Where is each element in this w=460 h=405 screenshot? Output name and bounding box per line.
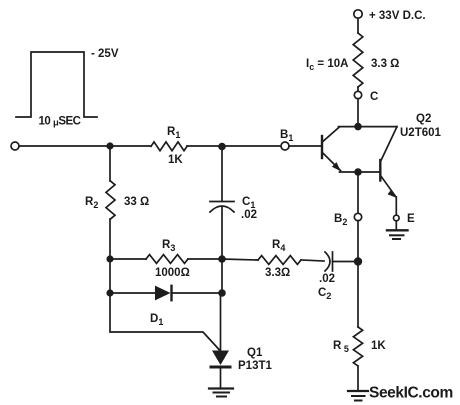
resistor R1	[151, 142, 187, 151]
capacitor C2	[325, 252, 333, 271]
diode D1	[155, 286, 172, 301]
resistor R5	[353, 327, 362, 366]
svg-text:Q2: Q2	[416, 113, 431, 125]
wire C1 column down to Q1 anode	[221, 259, 223, 293]
junction Q2 emitter/base node	[354, 168, 362, 176]
wire E to ground	[395, 221, 397, 230]
wire R1 to C1 junction	[187, 145, 222, 147]
wire terminal to collector resistor	[357, 18, 359, 33]
svg-text:C1: C1	[242, 196, 255, 210]
svg-text:.02: .02	[241, 209, 257, 221]
wire junction to terminal B1	[222, 145, 281, 147]
svg-text:- 25V: - 25V	[91, 48, 119, 60]
wire to D1	[110, 292, 156, 294]
svg-text:B2: B2	[334, 213, 347, 227]
junction R3 left	[106, 255, 113, 262]
junction at R2 top	[106, 142, 113, 149]
ground (E)	[387, 230, 408, 239]
svg-text:B1: B1	[280, 129, 293, 143]
wire left column row2 to row3	[109, 259, 111, 293]
terminal C	[354, 91, 361, 98]
svg-text:R1: R1	[167, 126, 180, 140]
svg-text:D1: D1	[150, 313, 163, 327]
input terminal	[11, 142, 19, 150]
svg-text:SeekIC.com: SeekIC.com	[369, 385, 453, 402]
junction D1 right	[218, 289, 226, 297]
wire R2 to node row	[109, 219, 111, 259]
svg-text:1000Ω: 1000Ω	[155, 267, 190, 279]
resistor R4	[258, 256, 301, 265]
wire R3 to junction	[188, 258, 222, 260]
svg-text:R 5: R 5	[333, 340, 349, 354]
wire junction to R4	[222, 259, 258, 260]
junction at C1 top	[218, 143, 226, 151]
svg-text:10 μSEC: 10 μSEC	[39, 116, 81, 129]
wire junction down to C1	[221, 146, 223, 201]
wire Q1 to ground	[220, 368, 222, 388]
wire junction to R1	[110, 145, 151, 147]
svg-text:3.3Ω: 3.3Ω	[265, 267, 290, 279]
pulse source waveform (10 usec, -25V)	[16, 52, 97, 117]
terminal B2	[354, 213, 361, 220]
resistor R3	[146, 255, 188, 264]
terminal B1	[281, 142, 289, 150]
svg-text:R3: R3	[162, 239, 175, 253]
svg-text:Ic = 10A: Ic = 10A	[306, 58, 348, 72]
terminal E	[394, 215, 400, 221]
SCR Q1	[211, 351, 230, 368]
svg-text:E: E	[407, 213, 415, 225]
transistor Q2 (darlington pair U2T601)	[322, 127, 397, 198]
wire junction down to R2	[109, 146, 111, 181]
wire Q2 emitter2 to terminal E	[395, 197, 397, 215]
ground (Q1)	[209, 389, 233, 397]
svg-text:Q1: Q1	[247, 347, 263, 359]
wire R5 to ground	[357, 366, 359, 391]
wire C1 to node row	[221, 208, 223, 260]
svg-text:C: C	[370, 91, 378, 103]
wire terminal C to Q2 collector	[357, 99, 359, 126]
wire D1 to junction	[172, 292, 223, 294]
wire R4 to C2	[301, 260, 324, 261]
svg-text:.02: .02	[319, 273, 335, 285]
junction D1 left	[106, 289, 113, 296]
junction C1 bottom	[218, 255, 226, 263]
resistor 3.3 ohm (collector)	[353, 33, 363, 87]
svg-text:33 Ω: 33 Ω	[124, 196, 149, 208]
wire C2 to junction	[333, 261, 359, 263]
wire to R3	[110, 258, 146, 260]
svg-text:U2T601: U2T601	[400, 127, 442, 139]
wire input to R2 junction	[19, 145, 110, 147]
svg-text:+ 33V D.C.: + 33V D.C.	[369, 10, 426, 22]
wire B1 to Q2 base	[289, 145, 321, 147]
capacitor C1	[210, 202, 234, 213]
wire resistor to terminal C	[357, 87, 359, 91]
wire Q2 node to terminal B2	[357, 172, 359, 213]
svg-text:1K: 1K	[371, 340, 386, 352]
ground (R5)	[348, 391, 368, 401]
wire B2 to C2 junction	[357, 221, 359, 262]
svg-text:1K: 1K	[168, 154, 183, 166]
wire left column down to Q1 gate	[110, 293, 220, 350]
svg-text:R2: R2	[85, 196, 98, 210]
svg-text:C2: C2	[318, 287, 331, 301]
svg-text:P13T1: P13T1	[238, 360, 272, 372]
resistor R2	[106, 181, 115, 219]
svg-text:3.3 Ω: 3.3 Ω	[371, 58, 399, 70]
svg-text:R4: R4	[272, 239, 285, 253]
wire junction to R5	[357, 262, 359, 328]
power terminal +33V	[354, 10, 362, 18]
junction C2 / R5	[354, 257, 362, 265]
junction Q2 collector node	[354, 123, 362, 131]
